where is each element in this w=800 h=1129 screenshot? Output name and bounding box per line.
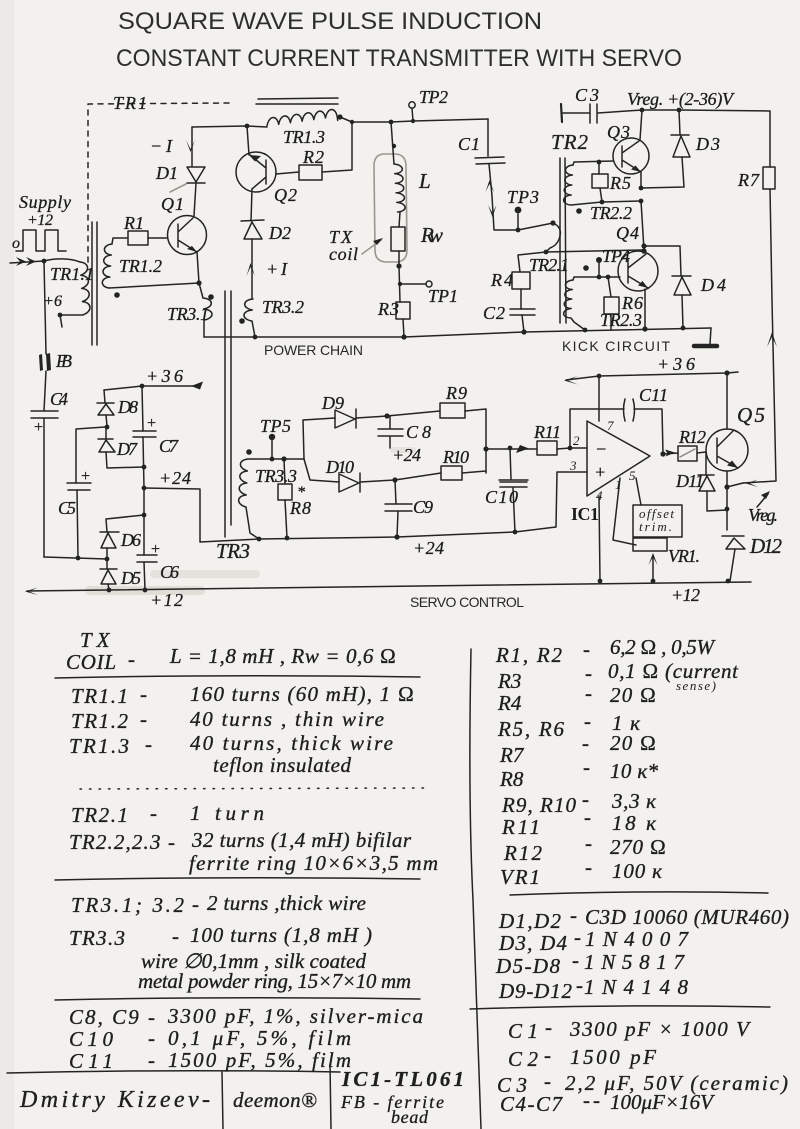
capacitor C6 [137,555,157,562]
wire C2 to rail [522,315,524,332]
svg-text:40 turns, thick wire: 40 turns, thick wire [190,731,393,755]
svg-text:TR1.2: TR1.2 [119,256,162,276]
node Q3 emitter [639,186,644,191]
svg-text:metal powder ring, 15×7×10 mm: metal powder ring, 15×7×10 mm [138,969,411,993]
separator line 1 [55,676,420,678]
svg-text:C11: C11 [639,385,668,405]
resistor R4 [512,272,530,289]
op-amp IC1 triangle [587,421,650,496]
svg-text:TR1.1: TR1.1 [71,684,128,708]
svg-text:SERVO CONTROL: SERVO CONTROL [410,594,524,610]
svg-text:D9-D12: D9-D12 [498,979,573,1003]
svg-text:40 turns , thin wire: 40 turns , thin wire [190,707,384,731]
wire C1 to TP3 rail with arrows [489,164,518,230]
svg-text:TR1.3: TR1.3 [283,127,325,147]
node C9 rail [394,534,399,539]
node D6 tap [142,513,147,518]
node R2 drop [350,120,354,124]
svg-text:TP3: TP3 [507,187,539,207]
transistor Q2 [236,152,276,192]
wire R6 vertical [608,277,611,330]
node TR2.3 rail [583,328,588,333]
svg-text:D1,D2: D1,D2 [498,909,562,933]
svg-text:3300 pF, 1%, silver-mica: 3300 pF, 1%, silver-mica [167,1004,423,1028]
wire D1 branch with arrow [191,127,193,166]
capacitor C8 [378,416,403,448]
resistor R6 [604,297,619,314]
svg-text:R9: R9 [445,383,467,403]
wire D3 bottom to Q3 emitter [641,157,684,188]
svg-text:R2: R2 [302,147,324,167]
svg-text:-: - [140,682,147,706]
node R5 top [597,160,602,165]
svg-text:VR1.: VR1. [668,546,700,566]
svg-text:TX: TX [80,628,115,652]
svg-text:3: 3 [569,458,577,473]
wire D6 branch [106,515,144,532]
capacitor C5 [67,483,91,490]
svg-text:D3: D3 [695,134,720,154]
wire TR3.3 top rail [248,458,304,460]
wire Q2 emitter down to D2 [251,189,252,221]
diode D2 [241,220,264,239]
rail +12 bottom [27,582,751,591]
winding TR2.3 [564,280,573,318]
wire R5 vertical [599,162,602,202]
svg-text:Q1: Q1 [161,194,184,214]
svg-text:32 turns (1,4 mH) bifilar: 32 turns (1,4 mH) bifilar [191,828,412,852]
wire bottom link C4-C5-D5D6 [44,557,107,559]
svg-text:sense): sense) [676,678,716,693]
svg-text:R3: R3 [497,669,521,693]
svg-text:C4-C7: C4-C7 [500,1092,564,1116]
wire R4 to C2 [520,289,522,309]
svg-text:R9, R10: R9, R10 [501,793,577,817]
wire C9 node to R10 [395,473,441,480]
wire Q5 collector [726,373,728,429]
separator line 2 [55,878,420,880]
svg-text:TR1.1: TR1.1 [50,264,94,284]
svg-text:TR3: TR3 [216,539,250,563]
svg-text:-: - [192,892,199,916]
svg-text:TR2: TR2 [551,130,589,154]
svg-text:-: - [582,731,589,755]
capacitor C11 [624,399,635,421]
node R8 rail [285,536,290,541]
winding TR3.1 [203,298,212,320]
svg-text:+6: +6 [43,293,62,310]
svg-text:-: - [150,801,157,825]
svg-text:TR2.1: TR2.1 [71,803,128,827]
wire pin5 into box [636,478,641,505]
resistor R10 [441,466,462,480]
svg-text:Supply: Supply [19,192,71,212]
wire TR2.1 bottom / R4 top / kick node [518,252,546,272]
svg-text:Q2: Q2 [274,185,297,205]
svg-text:TR3.3: TR3.3 [69,926,125,950]
ground kick [710,328,711,344]
wire Q4 emitter to rail [644,289,646,329]
wire D2 down to TR3.2 with +I arrow [251,239,253,299]
svg-text:C5: C5 [58,498,76,518]
resistor R8 [278,484,292,500]
svg-text:-: - [576,973,583,997]
node D8-D7 [105,425,110,430]
svg-text:TR3.1: TR3.1 [167,304,209,324]
wire summing node to R11 with arrow [486,448,537,450]
svg-text:R1: R1 [123,213,144,233]
separator column vertical [470,649,481,1129]
wire D11 bottom to emitter line [707,491,727,511]
polarity dot TR2.3 [583,265,589,271]
svg-text:-: - [583,637,590,661]
transformer TR2 core [560,158,566,323]
svg-text:C3: C3 [575,85,599,105]
separator right 2 [470,1006,770,1009]
svg-text:TR1.3: TR1.3 [69,734,129,758]
wiper VR1 arrow [652,556,654,581]
node Q4 collector [641,243,646,248]
svg-text:-: - [584,709,591,733]
resistor R12 [678,446,697,461]
svg-text:R8: R8 [499,767,524,791]
wire Q4 node to D4 [644,246,681,276]
potentiometer VR1 [633,538,667,551]
wire supply input with arrows [10,261,44,263]
node R3 rail [401,334,406,339]
wire Q5 emitter down [726,471,728,487]
node C10 top [508,446,513,451]
transformer TR3 core [225,291,231,537]
wire Q4 collector stub [643,251,644,253]
svg-text:C10: C10 [485,487,518,507]
transistor Q3 [613,138,649,174]
wire FB to C4 [44,371,46,411]
node TP2 [411,119,415,123]
box top line [7,1071,340,1073]
node C7 bottom [142,465,147,470]
svg-text:R12: R12 [503,841,543,865]
node +24 tap [142,486,147,491]
resistor Rw [391,227,405,251]
wire R2 to top rail [322,122,352,172]
wire L to Rw [399,212,400,227]
inductor L TX coil [394,164,405,212]
svg-text:1500 pF, 5%, film: 1500 pF, 5%, film [168,1048,351,1072]
wire +24 run to TR3 area [144,488,259,542]
wire C5 bottom [77,490,78,558]
rail Vreg top [642,110,770,111]
node TP4 junction [597,275,602,280]
wire TR3.2 bottom to rail [252,321,255,337]
node D12 top link [725,507,730,512]
polarity dot TR1.2 [114,292,120,298]
diode D9 [335,409,356,428]
svg-text:R11: R11 [533,422,561,442]
svg-text:D3, D4: D3, D4 [498,931,568,955]
wire pin1 to VR1 left [613,478,636,545]
wire TR2.3 top to Q4 base [573,277,620,280]
resistor R1 [128,231,148,245]
node pin4 rail [598,579,603,584]
smudge near C10 wire [390,447,416,453]
svg-text:D8: D8 [117,397,138,417]
TX coil pencil outline [374,154,407,262]
node Rw bottom [396,263,401,268]
diode D10 [339,473,360,492]
wire R1 to Q1 base [148,237,167,239]
svg-text:+12: +12 [671,585,700,605]
wire TR1.2 top to R1 [112,238,128,244]
svg-text:D12: D12 [749,534,783,558]
svg-text:C6: C6 [160,562,179,582]
svg-text:+: + [146,415,157,432]
svg-text:SQUARE WAVE PULSE INDUCTIO: SQUARE WAVE PULSE INDUCTION [118,8,542,35]
node TR2.1 bottom [544,250,549,255]
rail power chain bottom [204,328,711,337]
node TP3 [516,228,521,233]
node supply junction [42,259,47,264]
node TR3.2 rail [253,335,258,340]
svg-text:-: - [148,1026,155,1050]
wire TR3.3 bottom [246,507,259,539]
test point TP3 [517,214,519,230]
svg-text:POWER CHAIN: POWER CHAIN [264,342,363,358]
wire D6 bottom to link [106,548,108,559]
capacitor C3 with terminal [561,104,562,122]
node Q3 collector [640,108,645,113]
svg-text:TR1.2: TR1.2 [71,709,129,733]
svg-text:C1: C1 [458,134,480,154]
svg-text:CONSTANT CURRENT TRANSMITTER: CONSTANT CURRENT TRANSMITTER WITH SERVO [116,45,682,72]
wire R12 to Q5 base [697,452,706,453]
svg-text:R5: R5 [609,173,631,193]
svg-text:TP2: TP2 [419,87,448,107]
resistor R11 [537,441,557,455]
diode D12 [722,536,745,549]
svg-text:TR3.2: TR3.2 [262,297,304,317]
svg-text:100 к: 100 к [612,859,662,883]
wire C1 drop [487,119,489,156]
wire C8 node to R9 [387,411,440,416]
wire TR1.1 bottom tap to +6 stub [60,315,83,327]
svg-text:-: - [544,1043,551,1067]
svg-text:+36: +36 [146,366,183,386]
ferrite bead FB [39,354,43,371]
supply square-wave symbol [16,230,66,251]
wire TR2.2 bottom link [571,201,641,205]
svg-text:C10: C10 [69,1027,114,1051]
separator line 3 [55,998,420,1000]
capacitor C7 [133,431,156,437]
diode D5 [100,559,117,584]
transformer TR1 dashed boundary [88,103,229,262]
wire R7 down right edge to Q5 emitter [743,189,776,483]
wire supply node down to FB [44,261,46,354]
svg-text:VR1: VR1 [500,865,540,889]
node C5 link [76,556,81,561]
polarity dot TR3.1 [208,294,214,300]
node R5 bottom [600,200,605,205]
rail +36 left arrow [104,386,200,390]
wire +24 down to D6/C6 [143,488,145,515]
svg-text:Q5: Q5 [737,403,765,427]
svg-text:5: 5 [629,468,636,483]
svg-text:-: - [585,831,592,855]
wire R8 vertical [284,459,287,538]
wire C11 right to output [634,409,663,454]
wire R9 to summing vertical [465,409,486,473]
node D1 rail junction [245,124,250,129]
wire C4 to bottom link [43,418,45,557]
capacitor C4 [31,411,58,418]
svg-text:TR2.3: TR2.3 [600,310,642,330]
node TR3.3 rail [257,537,262,542]
winding TR2.1 single turn [546,223,560,252]
node TR2.1 top [550,220,555,225]
svg-text:Rw: Rw [420,223,443,247]
svg-text:D7: D7 [116,439,138,459]
svg-text:+I: +I [266,259,288,279]
svg-text:TP1: TP1 [428,286,458,306]
svg-text:3,3 к: 3,3 к [611,789,656,813]
wire TR2.2 top to Q3 base [573,161,613,165]
svg-text:R10: R10 [442,447,469,467]
wire Q3 collector [640,110,642,140]
svg-text:-: - [574,925,581,949]
wire emitter to D12 [726,487,728,530]
svg-text:+24: +24 [392,445,421,465]
wire C11 feedback left [570,409,624,448]
svg-text:C4: C4 [50,389,68,409]
svg-text:-: - [128,647,135,671]
svg-text:KICK CIRCUIT: KICK CIRCUIT [562,338,670,354]
svg-text:2: 2 [573,433,580,448]
svg-text:-: - [585,855,592,879]
winding TR1.2 [102,244,112,288]
svg-text:Q4: Q4 [616,223,639,243]
svg-text:-: - [544,1069,551,1093]
svg-text:TP4: TP4 [602,246,630,266]
wire top rail to C1 corner [340,117,488,122]
winding TR1.1 [80,262,90,315]
node D5D6 link [105,557,110,562]
node emitter link [639,199,644,204]
resistor R2 [299,165,322,180]
svg-text:o: o [12,235,20,252]
wire Q1 emitter down to TR3.1 [199,283,203,298]
svg-text:1500 pF: 1500 pF [570,1045,656,1069]
svg-text:-: - [148,1048,155,1072]
capacitor C1 [475,157,505,164]
wire Q1 emitter to node [197,252,199,283]
wire Q3 emitter down to Q4 collector node [641,201,644,250]
wire C7 top [142,386,143,431]
winding TR3.3 [239,459,248,507]
wire C7 bottom to +24 node [143,437,144,488]
node pin7 [597,374,602,379]
svg-text:D5: D5 [120,568,141,588]
test point TP4 [598,263,600,277]
capacitor C10 [499,448,528,532]
node C7 top [140,384,145,389]
transistor Q4 [618,251,658,291]
svg-text:-: - [572,948,579,972]
svg-text:R3: R3 [377,299,399,319]
resistor R9 [440,403,465,418]
svg-text:R12: R12 [678,427,706,447]
svg-text:TR1: TR1 [113,93,147,113]
svg-text:D2: D2 [268,223,291,243]
resistor R7 [763,167,775,189]
diode D8 [97,403,114,415]
svg-text:R4: R4 [490,270,513,290]
svg-text:+: + [594,462,606,482]
svg-text:C7: C7 [159,436,179,456]
svg-text:C3D 10060 (MUR460): C3D 10060 (MUR460) [585,905,789,929]
node Q1 emitter [196,280,201,285]
svg-text:teflon insulated: teflon insulated [213,753,352,777]
svg-text:R8: R8 [289,498,311,518]
svg-text:-: - [545,1015,552,1039]
test point TP2 [412,108,413,121]
wire D9 to C8 node [356,416,387,418]
wire fork to D9 line [303,418,335,459]
separator right 1 [510,892,768,895]
svg-text:+24: +24 [413,538,444,558]
wire Vreg corner down to R7 [769,111,771,167]
node D3 top [677,108,682,113]
svg-text:R4: R4 [497,691,522,715]
svg-text:D10: D10 [325,457,354,477]
svg-text:-: - [172,924,179,948]
svg-text:TR2.2,2.3 -: TR2.2,2.3 - [69,830,175,854]
svg-text:C9: C9 [413,497,433,517]
svg-text:Q3: Q3 [607,122,630,142]
resistor R5 [592,174,608,188]
svg-text:+: + [150,541,161,558]
svg-text:TR3.3: TR3.3 [255,466,297,486]
svg-text:10 к*: 10 к* [610,759,659,783]
svg-text:−I: −I [150,136,173,156]
polarity dot TR3.3 [246,449,252,455]
node Q4 emitter rail [642,326,647,331]
wire Q2 collector up to D1 rail node [247,126,249,155]
svg-text:D11: D11 [675,471,704,491]
svg-text:L: L [418,169,431,193]
node Q5 collector top [724,370,729,375]
svg-text:bead: bead [391,1107,429,1127]
svg-text:-: - [145,732,152,756]
wire TR3.1 to bottom rail [203,320,205,337]
svg-text:coil: coil [329,244,358,264]
wire kick node across to Q4 collector [546,250,644,252]
label Vreg output with arrow [757,494,768,507]
svg-text:+12: +12 [150,590,183,610]
svg-text:R11: R11 [501,815,540,839]
resistor R3 [396,302,410,319]
wire TX branch down [391,122,394,164]
wire TP3 to TR2.1 [518,223,553,230]
arrow TX coil pointer [362,240,381,254]
wire output to R12 [663,453,678,454]
wire D8 to junction [106,415,107,426]
wire D1 to Q1 collector [194,183,196,216]
wire R10 to summing vertical [462,471,486,473]
node VR1 rail [651,579,656,584]
transformer TR1 core vertical [92,222,97,345]
svg-text:6,2 Ω , 0,5W: 6,2 Ω , 0,5W [610,635,717,659]
